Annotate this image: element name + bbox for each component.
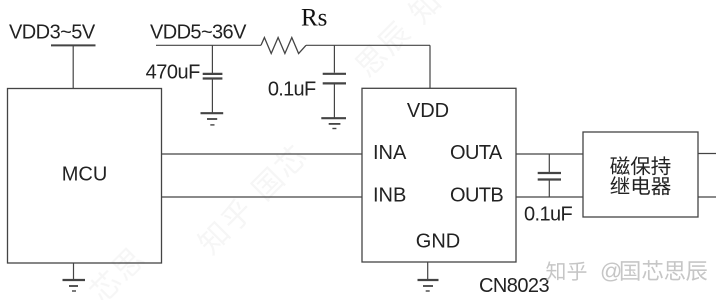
svg-text:OUTB: OUTB [450,185,503,207]
wire VDD3~5V rail to MCU [72,45,74,88]
IC U1 CN8023 body [362,88,516,262]
resistor Rs [261,38,306,54]
svg-text:470uF: 470uF [146,62,200,84]
watermark 知乎 @国芯思辰 [546,258,707,283]
faint diagonal background watermark [85,0,443,300]
capacitor C2 0.1uF [323,45,346,118]
relay block 磁保持继电器 [583,132,698,217]
svg-text:Rs: Rs [301,5,327,32]
wire MCU to INB [162,196,363,198]
svg-text:GND: GND [416,231,460,253]
power rail bar VDD3~5V [51,44,96,46]
svg-text:VDD5~36V: VDD5~36V [150,22,247,44]
ground (C1) [201,113,224,125]
svg-text:CN8023: CN8023 [479,275,550,297]
MCU block [8,89,162,264]
svg-text:VDD: VDD [407,100,449,122]
capacitor C3 0.1uF across OUTA/OUTB [538,154,561,197]
wire MCU to INA [162,153,363,155]
wire VDD5~36V to resistor Rs [156,44,261,46]
wire corner down to VDD pin [429,45,431,88]
wire OUTA to relay [516,153,583,155]
ground (MCU) [63,263,86,291]
wire relay output B [698,196,716,198]
svg-text:INB: INB [373,185,406,207]
svg-text:@: @ [600,258,622,283]
ground (IC) [418,262,439,291]
wire Rs to VDD corner [306,44,430,46]
ground (C2) [321,118,346,128]
wire relay output A [698,153,716,155]
svg-text:MCU: MCU [62,163,108,185]
svg-text:0.1uF: 0.1uF [524,203,573,225]
wire OUTB to relay [516,196,583,198]
svg-text:0.1uF: 0.1uF [268,78,316,100]
svg-text:OUTA: OUTA [450,142,503,164]
svg-text:VDD3~5V: VDD3~5V [9,22,96,44]
capacitor C1 470uF [203,45,223,113]
svg-text:INA: INA [373,142,407,164]
